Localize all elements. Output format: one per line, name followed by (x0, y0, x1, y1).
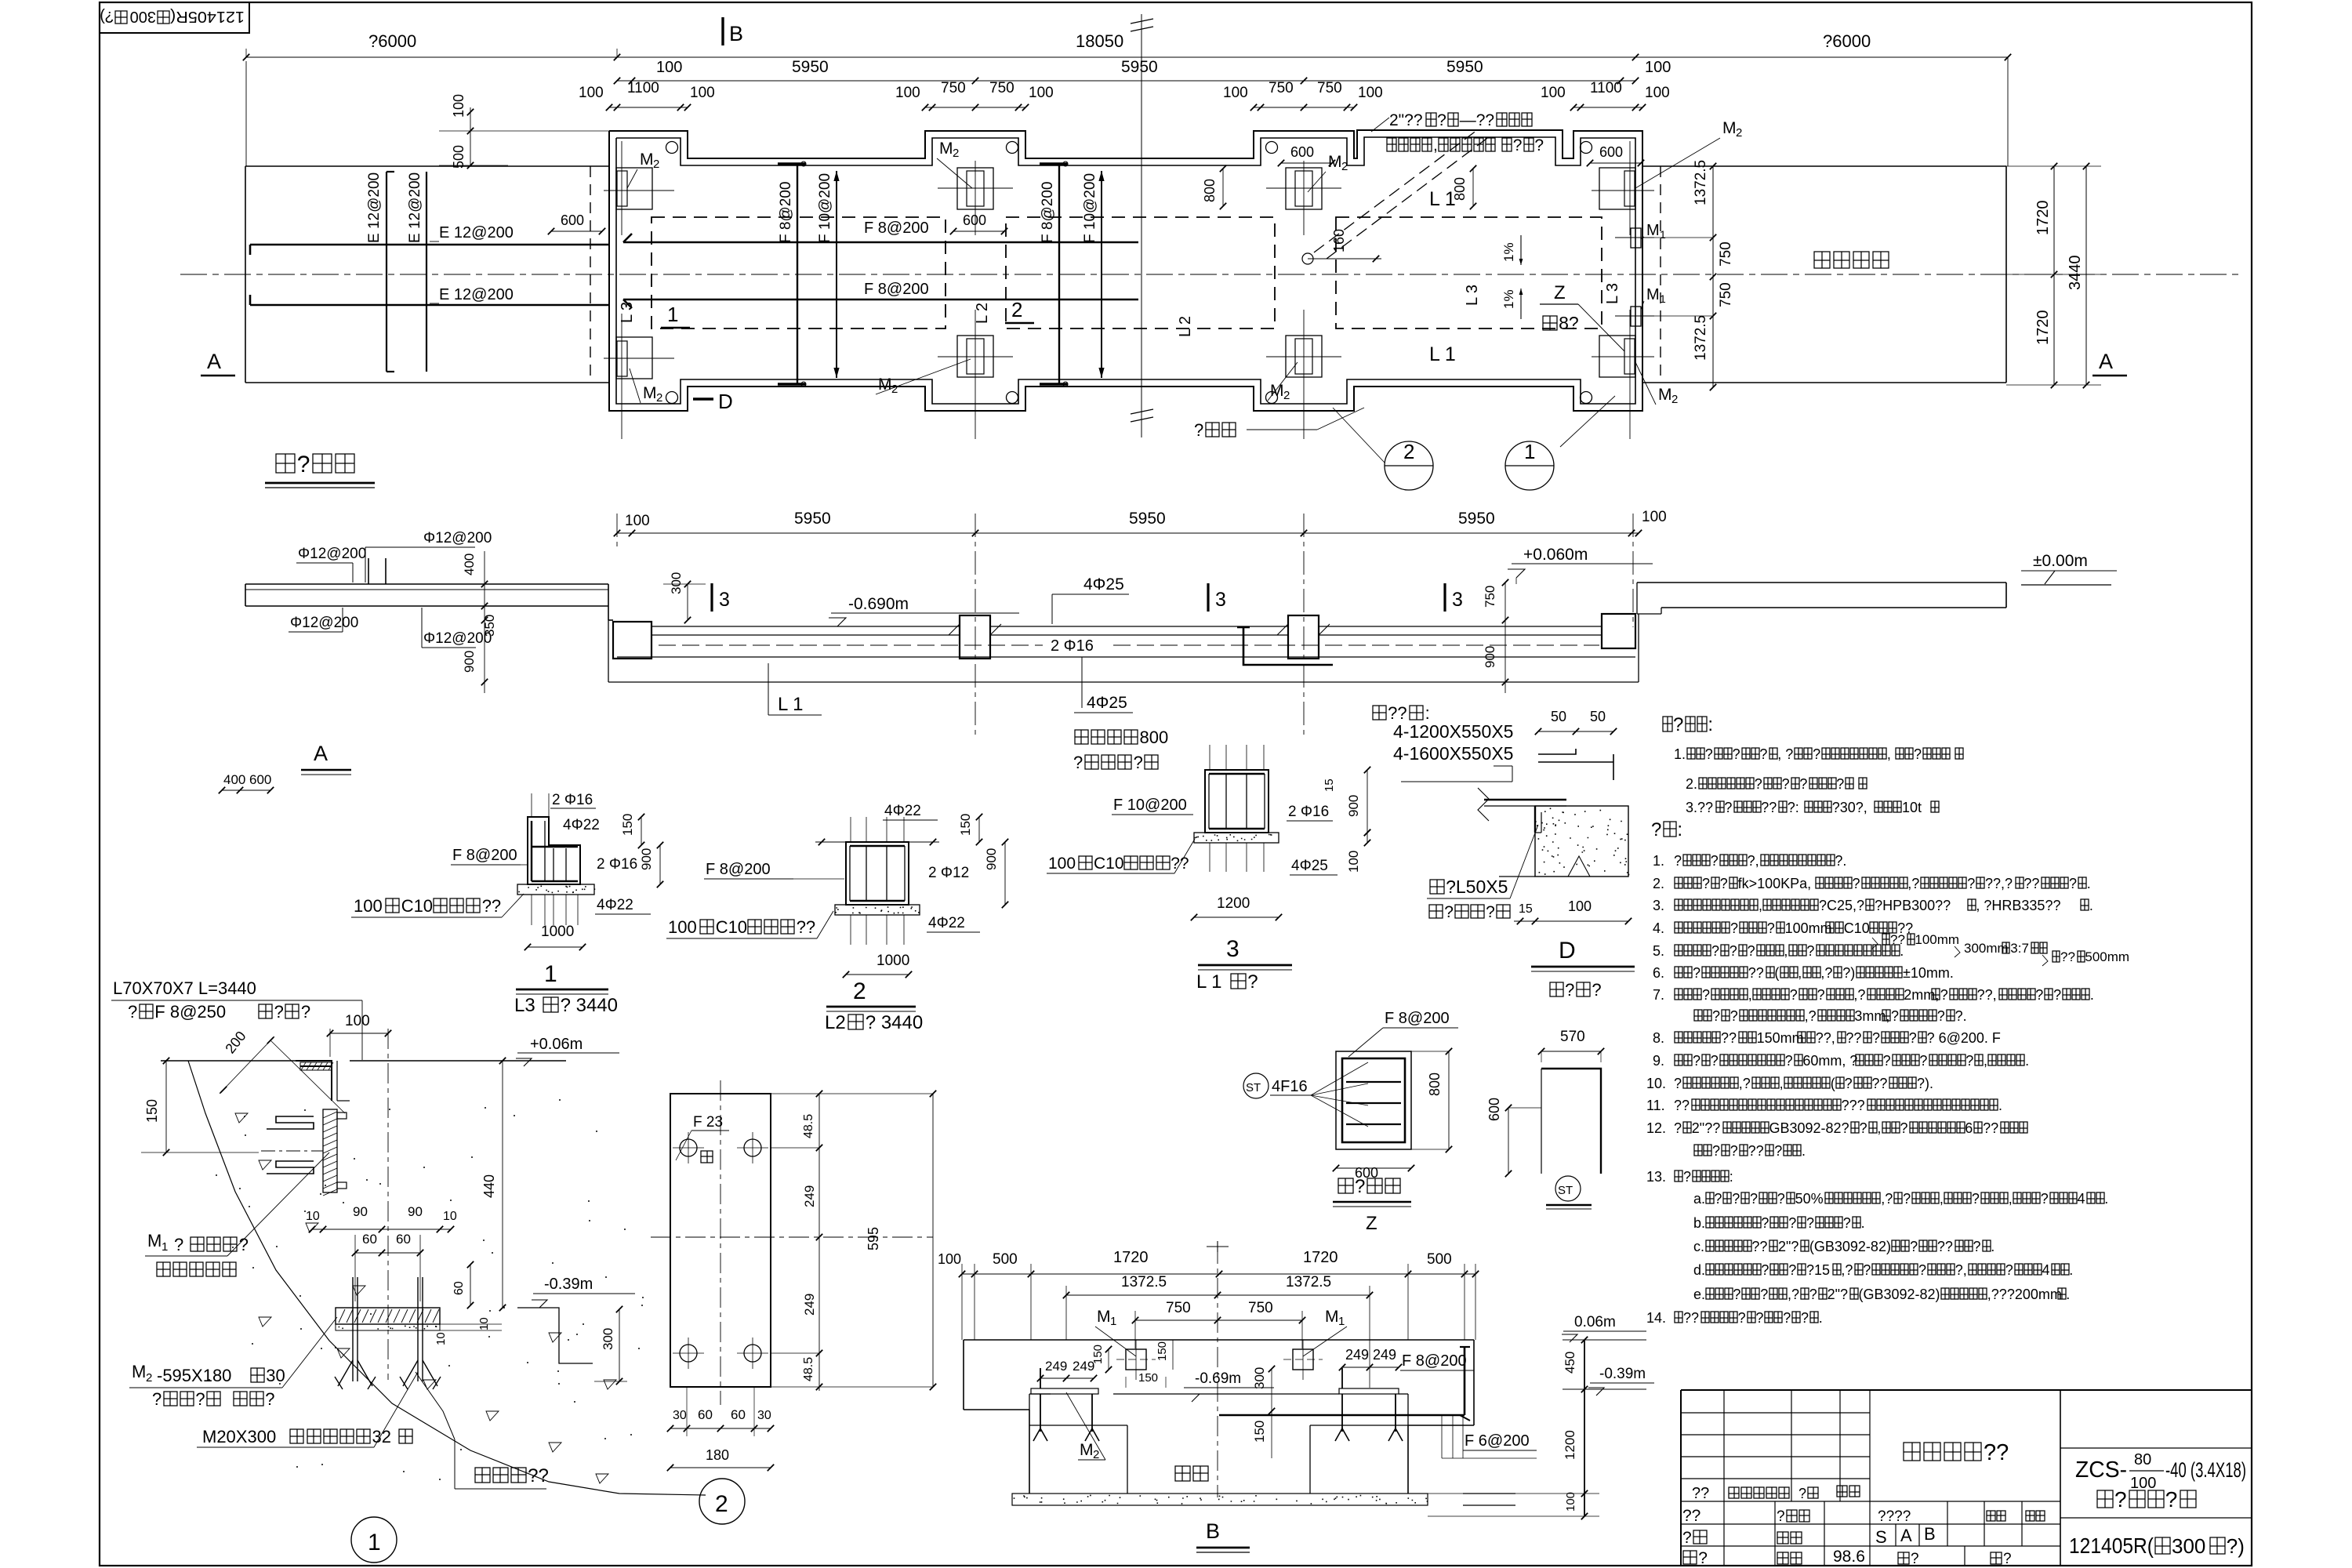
svg-text:300: 300 (601, 1328, 615, 1350)
svg-text:M: M (643, 384, 657, 402)
svg-text:60: 60 (452, 1281, 466, 1295)
svg-text:2: 2 (653, 158, 659, 171)
svg-text:??: ?? (1674, 1098, 1690, 1113)
svg-text:150: 150 (1091, 1345, 1105, 1364)
svg-text:?: ? (1911, 1551, 1919, 1567)
svg-text:249: 249 (1373, 1347, 1396, 1363)
svg-text:A: A (1900, 1526, 1912, 1545)
svg-text:?: ? (1748, 943, 1755, 959)
svg-text:9.: 9. (1653, 1053, 1664, 1069)
svg-text:M: M (1325, 1308, 1339, 1326)
plan dim right: 1720/1720/3440 on far right (2053, 166, 2055, 385)
svg-text:32: 32 (372, 1427, 391, 1446)
plan: ?修孔 label (1194, 420, 1236, 440)
svg-text:F 8@200: F 8@200 (1040, 182, 1056, 243)
title block main title (1904, 1440, 2009, 1465)
svg-text:300mm: 300mm (1964, 941, 2009, 956)
svg-text:180: 180 (706, 1447, 729, 1463)
svg-text:?: ? (1674, 853, 1682, 869)
svg-text:600: 600 (1599, 144, 1623, 160)
svg-text:,: , (1798, 965, 1802, 981)
title block rows left part (1681, 1412, 1870, 1414)
svg-text:249: 249 (802, 1185, 817, 1207)
svg-text:(GB3092-82): (GB3092-82) (1859, 1287, 1940, 1302)
svg-text:ST: ST (1246, 1081, 1261, 1094)
svg-text:60: 60 (731, 1407, 746, 1422)
svg-text:800: 800 (1427, 1073, 1443, 1096)
detail c1: L70X70X7 label (113, 978, 256, 998)
svg-text:?: ? (1733, 1287, 1740, 1302)
svg-text:900: 900 (639, 848, 654, 870)
svg-text:,: , (1433, 136, 1438, 154)
svg-text:?: ? (1918, 1262, 1926, 1278)
svg-text:??: ?? (797, 917, 815, 937)
svg-text:L 1: L 1 (1429, 343, 1456, 365)
svg-text:3: 3 (719, 589, 730, 611)
plan: M2 embedded plate assembly at x=1244 (957, 168, 993, 209)
svg-text:150: 150 (958, 814, 973, 836)
svg-text:Φ12@200: Φ12@200 (290, 615, 358, 631)
svg-text:c.: c. (1693, 1239, 1704, 1254)
svg-text:150: 150 (1138, 1371, 1158, 1385)
svg-text:±10mm.: ±10mm. (1903, 965, 1954, 981)
svg-text:?): ?) (100, 8, 114, 25)
svg-text:?: ? (1733, 746, 1740, 762)
svg-text:4-1600X550X5: 4-1600X550X5 (1393, 743, 1513, 764)
svg-text:1720: 1720 (2034, 201, 2052, 236)
plan: M2 plates at left end wall (616, 168, 652, 209)
plan: F8@200 pit rebar lines with hooks (623, 241, 1138, 244)
svg-text:10t: 10t (1902, 800, 1922, 815)
svg-text:F 8@200: F 8@200 (1402, 1352, 1467, 1370)
svg-text:150: 150 (1156, 1341, 1169, 1361)
svg-text:1: 1 (667, 303, 678, 326)
svg-text:1720: 1720 (1303, 1249, 1338, 1266)
base plate rebar layout detail (1385, 1010, 1450, 1027)
svg-text:900: 900 (984, 848, 999, 870)
svg-text:?: ? (1714, 1191, 1722, 1207)
svg-text:?: ? (1914, 746, 1922, 762)
plan: M2 plates at right end wall (1599, 168, 1635, 209)
svg-text:5950: 5950 (1458, 510, 1495, 528)
svg-text:1: 1 (1110, 1315, 1116, 1328)
plan: section D mark bottom (693, 397, 713, 400)
svg-text:10: 10 (434, 1332, 448, 1345)
svg-text:?: ? (1755, 776, 1762, 792)
svg-text:?: ? (1783, 1310, 1791, 1326)
svg-text:F 8@200: F 8@200 (1385, 1010, 1450, 1027)
svg-text:?: ? (1444, 903, 1454, 921)
svg-text:??: ?? (2024, 876, 2039, 891)
detail c1: M2 base plate hatched (336, 1308, 440, 1324)
plate holes (680, 1139, 697, 1156)
svg-text:12.: 12. (1646, 1120, 1666, 1136)
svg-text:1%: 1% (1501, 289, 1516, 309)
svg-text:3:7: 3:7 (2010, 941, 2029, 956)
svg-text:, ?HRB335??: , ?HRB335?? (1976, 898, 2060, 913)
svg-text:?: ? (1973, 1239, 1981, 1254)
svg-text:100: 100 (1564, 1492, 1577, 1512)
left edge beam L3 (613, 622, 652, 659)
svg-text:800: 800 (1452, 177, 1468, 201)
detail c1: circle 1 (351, 1517, 397, 1563)
svg-text:?: ? (174, 1235, 183, 1254)
svg-text:L3: L3 (514, 995, 535, 1016)
svg-text:?: ? (1674, 1076, 1682, 1091)
svg-text:90: 90 (408, 1204, 423, 1219)
plan: section B mark top (721, 17, 724, 45)
section B dim 1372.5 x2 (1066, 1294, 1370, 1296)
svg-text:?: ? (1809, 1287, 1817, 1302)
svg-text:?: ? (1711, 853, 1719, 869)
svg-text:4Φ25: 4Φ25 (1087, 694, 1127, 712)
svg-text::: : (1425, 703, 1430, 723)
svg-text:?: ? (1682, 1529, 1692, 1547)
svg-text:,?: ,? (1820, 965, 1832, 981)
svg-text:?: ? (1909, 1030, 1917, 1046)
svg-text:1000: 1000 (877, 953, 909, 969)
svg-text:15: 15 (1519, 902, 1533, 916)
svg-text:30: 30 (673, 1409, 687, 1422)
svg-text:1372.5: 1372.5 (1693, 315, 1709, 361)
plan: module1 span arrow F10@200 (836, 171, 837, 378)
svg-text:D: D (718, 390, 733, 413)
svg-text:?: ? (1806, 943, 1814, 959)
svg-text:L 3: L 3 (619, 302, 636, 323)
svg-text:C10: C10 (1094, 855, 1124, 873)
svg-text:600: 600 (249, 772, 271, 787)
detail 2 top bars cut marks (815, 841, 846, 843)
svg-text:4Φ22: 4Φ22 (884, 803, 921, 819)
svg-text:?: ? (1247, 971, 1258, 993)
svg-text:1: 1 (1660, 228, 1666, 241)
svg-text:0.06m: 0.06m (1574, 1314, 1616, 1330)
svg-text:-0.39m: -0.39m (544, 1276, 593, 1293)
svg-text:4F16: 4F16 (1272, 1078, 1308, 1095)
svg-text:F 8@250: F 8@250 (154, 1002, 226, 1022)
svg-text:E 12@200: E 12@200 (439, 224, 514, 241)
svg-text:??: ?? (1721, 1030, 1737, 1046)
section A: right approach slab (1637, 582, 2006, 583)
svg-text:fk>100KPa,: fk>100KPa, (1738, 876, 1812, 891)
svg-text:?: ? (1788, 1215, 1796, 1231)
svg-text:?: ? (1724, 800, 1732, 815)
section A: right edge beam (1602, 614, 1635, 648)
svg-text:2: 2 (146, 1371, 152, 1385)
svg-text:,???200mm: ,???200mm (1987, 1287, 2062, 1302)
svg-text:B: B (729, 22, 743, 45)
svg-text:M20X300: M20X300 (202, 1427, 276, 1446)
svg-text:(: ( (1831, 1076, 1835, 1091)
svg-text:?: ? (1782, 776, 1790, 792)
svg-text:??,: ??, (1816, 1030, 1835, 1046)
svg-text:M: M (1722, 119, 1737, 137)
svg-text:.: . (2089, 898, 2093, 913)
svg-text:b.: b. (1693, 1215, 1705, 1231)
svg-text:750: 750 (1483, 586, 1497, 608)
svg-text:?: ? (1486, 903, 1495, 921)
svg-text:?: ? (1900, 1120, 1908, 1136)
svg-text:1%: 1% (1501, 242, 1516, 262)
svg-text:2: 2 (853, 978, 866, 1004)
svg-text:6: 6 (1965, 1120, 1973, 1136)
svg-text:?: ? (1732, 1191, 1740, 1207)
plan: M2 embedded plate assembly at x=1663 (1286, 168, 1322, 209)
svg-text:150: 150 (144, 1099, 160, 1123)
svg-text:??: ?? (1761, 800, 1777, 815)
svg-text:??: ?? (1748, 1143, 1764, 1159)
plan: platform dashed rectangles (652, 217, 946, 328)
svg-text:?: ? (297, 452, 310, 477)
plan: centre symmetry line with break marks (1141, 14, 1142, 437)
detail 1 leader extension verticals (531, 895, 532, 925)
svg-text:?: ? (1845, 1076, 1853, 1091)
svg-text:249: 249 (802, 1294, 817, 1316)
svg-text:?: ? (1712, 1008, 1720, 1024)
plan: left approach slab (245, 165, 609, 167)
svg-text:B: B (1924, 1524, 1936, 1544)
top-left rotated drawing-number box (100, 2, 249, 33)
svg-text:30: 30 (757, 1409, 771, 1422)
svg-text:?: ? (1674, 1120, 1682, 1136)
svg-text:4Φ25: 4Φ25 (1083, 575, 1124, 593)
svg-text:121405R(: 121405R( (2069, 1534, 2154, 1558)
svg-text:3.: 3. (1653, 898, 1664, 913)
title block bottom row columns (1774, 1501, 1776, 1566)
svg-text:.: . (2066, 1287, 2070, 1302)
plate dims right (818, 1094, 820, 1391)
svg-text:? 3440: ? 3440 (561, 995, 618, 1016)
svg-text:?: ? (1860, 1120, 1867, 1136)
svg-text:2"??: 2"?? (1389, 111, 1423, 129)
svg-text:F 8@200: F 8@200 (864, 220, 929, 237)
svg-text:?: ? (1940, 987, 1948, 1003)
svg-text:L 1: L 1 (1196, 971, 1221, 993)
svg-text:2: 2 (1011, 298, 1022, 321)
svg-text:???: ??? (1842, 1098, 1865, 1113)
svg-text:8.: 8. (1653, 1030, 1664, 1046)
svg-text:?6000: ?6000 (1823, 31, 1871, 51)
svg-text:100: 100 (2130, 1475, 2156, 1492)
svg-text:?: ? (1134, 753, 1143, 772)
svg-text:?: ? (2041, 1191, 2049, 1207)
svg-text:+0.060m: +0.060m (1523, 546, 1588, 564)
svg-text:+0.06m: +0.06m (530, 1036, 583, 1053)
svg-text:750: 750 (989, 80, 1014, 96)
svg-text:3440: 3440 (2067, 256, 2084, 291)
svg-text:98.6: 98.6 (1833, 1548, 1865, 1566)
title block texts (1692, 1485, 1709, 1502)
svg-text:??: ?? (1692, 1485, 1709, 1502)
svg-text:500: 500 (993, 1251, 1018, 1268)
title block columns (1723, 1390, 1725, 1566)
detail D steel angle on concrete (1484, 799, 1566, 800)
svg-text:L70X70X7 L=3440: L70X70X7 L=3440 (113, 978, 256, 998)
svg-text:4: 4 (2042, 1262, 2050, 1278)
svg-text:18050: 18050 (1076, 31, 1123, 51)
title block right column rows (2060, 1447, 2252, 1449)
svg-text:L 3: L 3 (1604, 283, 1621, 304)
svg-text:??: ?? (1937, 1239, 1953, 1254)
svg-text:2: 2 (715, 1491, 728, 1517)
section A: 3-3 section marks (710, 583, 713, 612)
svg-text:100: 100 (1645, 59, 1671, 76)
svg-text:?: ? (1730, 920, 1738, 936)
detail 2 L2 beam section (846, 842, 909, 905)
svg-text:.: . (2087, 876, 2091, 891)
svg-text:,?: ,? (1907, 876, 1919, 891)
svg-text:?: ? (1702, 987, 1710, 1003)
svg-text:e.: e. (1693, 1287, 1705, 1302)
svg-text:,?: ,? (1788, 1287, 1799, 1302)
svg-text:F 10@200: F 10@200 (1082, 173, 1098, 243)
svg-text:2 Φ16: 2 Φ16 (1051, 637, 1094, 655)
section B dim 750 750 (1135, 1319, 1302, 1321)
detail c1: M1 channel assembly (323, 1109, 337, 1192)
svg-text:15: 15 (1323, 779, 1336, 792)
svg-text:?: ? (1767, 920, 1775, 936)
detail 3 L1 beam section (1205, 770, 1269, 833)
svg-text:600: 600 (1486, 1098, 1502, 1121)
svg-text:?: ? (1534, 136, 1544, 154)
svg-text:.: . (2090, 987, 2094, 1003)
notes: 特?提醒 (1663, 714, 1713, 735)
svg-text:??: ?? (1984, 1440, 2009, 1465)
svg-text:5950: 5950 (794, 510, 831, 528)
svg-text:??: ?? (1890, 932, 1905, 947)
upper C channel (267, 1116, 314, 1129)
svg-text:ST: ST (1558, 1184, 1573, 1197)
svg-text:,: , (1940, 1191, 1944, 1207)
svg-text:2: 2 (656, 391, 662, 405)
svg-text:?: ? (195, 1389, 205, 1409)
svg-text:3: 3 (1226, 936, 1240, 962)
section A: slab rebar sticks (368, 558, 369, 584)
svg-text:E 12@200: E 12@200 (366, 172, 383, 243)
svg-text:ZCS-: ZCS- (2075, 1457, 2127, 1483)
svg-text:??: ?? (1682, 1507, 1700, 1525)
svg-text:,: , (1887, 746, 1891, 762)
detail 3 bedding (1194, 833, 1279, 843)
detail 1 title L3梁 3440 (514, 995, 618, 1016)
svg-text:?: ? (1817, 987, 1825, 1003)
svg-text:M: M (1270, 382, 1284, 400)
svg-text:(: ( (1774, 965, 1779, 981)
ST label (1555, 1176, 1581, 1201)
svg-text:100: 100 (625, 513, 650, 529)
svg-text:-595X180: -595X180 (157, 1366, 231, 1385)
svg-text:3: 3 (1452, 589, 1463, 611)
svg-text:60: 60 (698, 1407, 713, 1422)
svg-text:5950: 5950 (1129, 510, 1166, 528)
svg-text:?: ? (1883, 1053, 1891, 1069)
svg-text:.: . (2025, 1053, 2029, 1069)
svg-text:Φ12@200: Φ12@200 (298, 546, 366, 562)
svg-text:750: 750 (941, 80, 966, 96)
svg-text:900: 900 (462, 651, 477, 673)
svg-text:.: . (1819, 1310, 1823, 1326)
svg-text:?: ? (1565, 980, 1574, 1000)
svg-text:?: ? (1355, 1176, 1365, 1197)
svg-text:100: 100 (895, 85, 920, 101)
svg-text:?: ? (1801, 1310, 1809, 1326)
svg-text:C10: C10 (401, 896, 433, 916)
svg-text:100: 100 (1048, 855, 1076, 873)
svg-text:M: M (640, 151, 654, 169)
section B bedding strip (1012, 1494, 1428, 1505)
svg-text:?: ? (1693, 1053, 1700, 1069)
svg-text:L2: L2 (825, 1012, 846, 1033)
svg-text:150: 150 (620, 814, 635, 836)
svg-text:100: 100 (668, 917, 697, 937)
svg-text:?: ? (1513, 136, 1523, 154)
svg-text:2: 2 (1093, 1448, 1099, 1461)
svg-text:3.??: 3.?? (1686, 800, 1713, 815)
svg-text:,: , (1984, 1053, 1987, 1069)
svg-text:4Φ25: 4Φ25 (1291, 858, 1328, 874)
svg-text:160: 160 (1331, 229, 1347, 252)
svg-text:750: 750 (1718, 282, 1734, 307)
svg-text:??,: ??, (1977, 987, 1997, 1003)
svg-text:2 Φ12: 2 Φ12 (928, 865, 969, 881)
svg-text:??: ?? (1846, 1030, 1861, 1046)
svg-text:?L50X5: ?L50X5 (1446, 877, 1508, 897)
svg-text:2.: 2. (1686, 776, 1697, 792)
section B M2 plates in floor (1031, 1388, 1098, 1394)
svg-text:4.: 4. (1653, 920, 1664, 936)
svg-text:?:: ?: (1788, 800, 1799, 815)
svg-text:F 8@200: F 8@200 (452, 847, 517, 864)
svg-text:M: M (147, 1231, 162, 1250)
svg-text:?: ? (1592, 980, 1601, 1000)
svg-text:4Φ22: 4Φ22 (597, 897, 633, 913)
svg-text:?: ? (1853, 876, 1860, 891)
svg-text:750: 750 (1248, 1300, 1273, 1316)
svg-text:1372.5: 1372.5 (1693, 160, 1709, 205)
svg-text:?: ? (1799, 776, 1807, 792)
checkered plate list (1373, 703, 1430, 723)
ST circle and 4F16 (1243, 1073, 1269, 1098)
svg-text:8?: 8? (1559, 313, 1579, 333)
svg-text:L 2: L 2 (1177, 316, 1194, 337)
svg-text:13.: 13. (1646, 1169, 1666, 1185)
svg-text:?: ? (1761, 1262, 1769, 1278)
section A: right dims 750/900 (1504, 583, 1506, 693)
plan: module2 span arrow (1101, 171, 1102, 378)
svg-text:100mm: 100mm (1915, 932, 1959, 947)
svg-text:D: D (1559, 938, 1576, 964)
svg-text:600: 600 (963, 212, 986, 228)
plan: M1 limiter plates on right wall (1631, 228, 1641, 248)
svg-text:??,?: ??,? (1985, 876, 2013, 891)
section A: dim line 100/5950/5950/5950/100 (617, 532, 1639, 534)
svg-text:1372.5: 1372.5 (1121, 1274, 1167, 1290)
svg-text:?,: ?, (1748, 853, 1759, 869)
title block outer (1681, 1389, 2252, 1391)
section A: pit outline (608, 584, 609, 620)
svg-text:?: ? (1788, 1262, 1796, 1278)
svg-text:d.: d. (1693, 1262, 1705, 1278)
lower C channel (267, 1161, 314, 1174)
svg-text:,: , (1877, 1120, 1881, 1136)
svg-text:595: 595 (866, 1227, 881, 1250)
svg-text:,: , (1780, 1076, 1784, 1091)
svg-text:750: 750 (1317, 80, 1342, 96)
svg-text:?: ? (1705, 746, 1713, 762)
svg-text:??: ?? (482, 896, 501, 916)
plan: module2 transverse bar (1058, 164, 1060, 384)
svg-text:±0.00m: ±0.00m (2033, 552, 2088, 570)
